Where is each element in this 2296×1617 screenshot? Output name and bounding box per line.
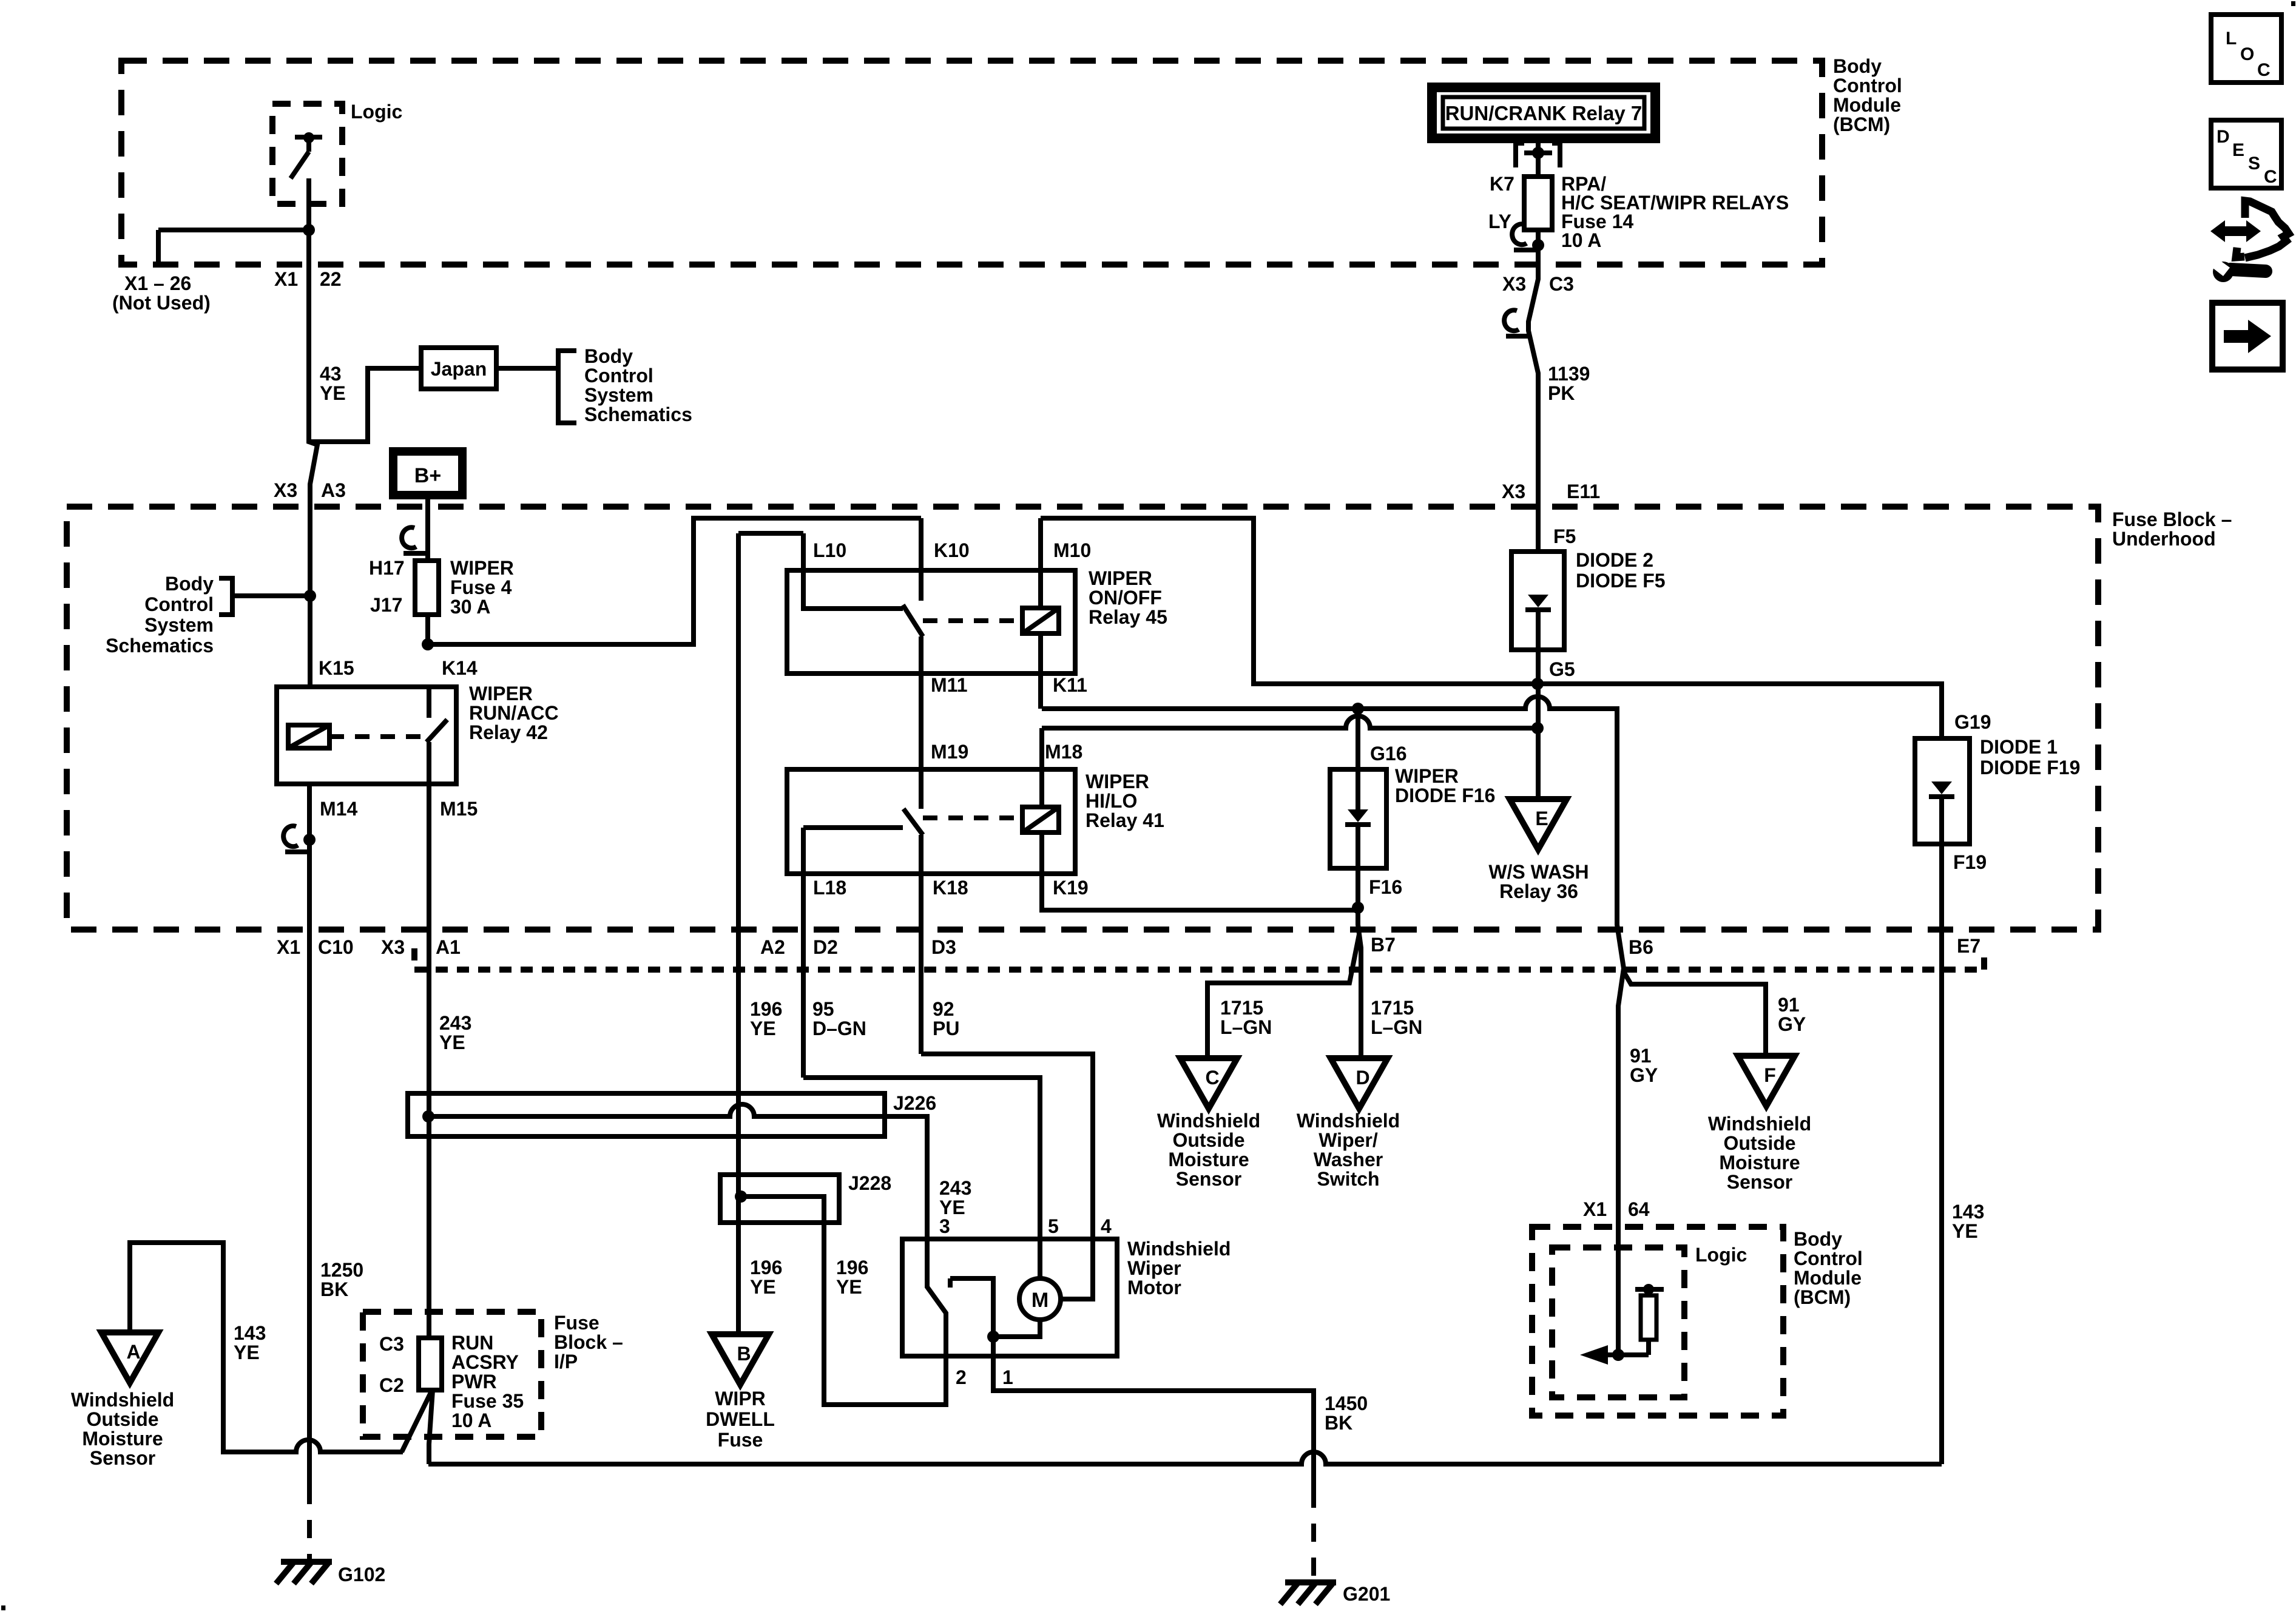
svg-text:Logic: Logic <box>351 101 402 123</box>
relay45 coil dashed link <box>923 618 1022 623</box>
svg-text:F19: F19 <box>1953 851 1987 873</box>
relay41 K19 pin <box>1042 832 1358 910</box>
svg-text:(Not Used): (Not Used) <box>112 292 211 314</box>
svg-text:G201: G201 <box>1343 1583 1390 1605</box>
J228 bar to motor pin2 <box>741 1197 946 1405</box>
svg-text:B7: B7 <box>1371 934 1396 956</box>
svg-text:B: B <box>737 1343 751 1365</box>
relay42 coil-switch dashed link <box>329 734 421 739</box>
node under relay 7 <box>1532 147 1544 159</box>
diode DIODE 1 / DIODE F19 box <box>1915 738 1970 844</box>
fuse RUN ACSRY PWR Fuse 35 10A <box>419 1338 442 1390</box>
relay41 coil <box>1022 807 1059 832</box>
node M14 clip junction <box>303 834 316 846</box>
sensor triangle C <box>1180 1058 1237 1109</box>
relay41 L18 wire <box>803 825 903 830</box>
switch S-logic in BCM <box>295 135 322 140</box>
node logic output <box>1612 1349 1624 1361</box>
relay41 coil dashed link <box>923 815 1022 820</box>
svg-text:64: 64 <box>1628 1198 1650 1220</box>
wire diode F16 to B7 node <box>1356 826 1360 908</box>
motor Windshield Wiper Motor box <box>902 1239 1117 1356</box>
svg-text:E7: E7 <box>1957 935 1980 957</box>
svg-text:M19: M19 <box>931 741 968 763</box>
corner mark top right <box>2291 1 2295 6</box>
wire 43 YE down to fuse block <box>309 265 317 687</box>
node junction at logic output <box>303 224 315 236</box>
svg-text:X1: X1 <box>274 268 298 290</box>
wire branch to C triangle <box>1207 934 1359 1058</box>
svg-text:E: E <box>2232 140 2244 160</box>
wire fuse35 top <box>427 1312 431 1338</box>
module box: Fuse Block - Underhood <box>67 507 2098 930</box>
icon LOC box <box>2211 15 2281 83</box>
svg-text:B6: B6 <box>1629 936 1653 958</box>
resistor in logic box <box>1635 1287 1664 1292</box>
wire fuse35 out to bottom line <box>429 1390 433 1464</box>
node at K15 wire <box>304 590 316 602</box>
svg-text:A1: A1 <box>436 936 461 958</box>
relay45 K11 pin <box>1038 633 1043 709</box>
relay42 switch arm <box>427 687 431 718</box>
svg-text:K14: K14 <box>442 657 478 679</box>
svg-text:X1: X1 <box>277 936 300 958</box>
wire fuse 14 output <box>1536 230 1541 245</box>
wire stub X1-26 not used <box>156 230 161 265</box>
relay45 switch arm <box>919 518 923 601</box>
icon arrow box <box>2212 303 2283 370</box>
svg-text:C: C <box>2257 60 2271 80</box>
relay45 L10 wire <box>738 531 803 536</box>
svg-text:B+: B+ <box>414 464 441 487</box>
wire fuse35 out diagonal to 143 YE loop <box>402 1390 432 1452</box>
svg-text:E11: E11 <box>1567 481 1600 502</box>
wire 143 YE loop <box>130 1243 403 1452</box>
svg-text:X1 – 26: X1 – 26 <box>124 272 191 294</box>
svg-text:1: 1 <box>1002 1366 1013 1388</box>
relay45 M11 wire <box>919 636 923 809</box>
node J17 output junction <box>422 638 434 650</box>
svg-text:A2: A2 <box>760 936 785 958</box>
power feed B+ box <box>393 451 462 495</box>
wire M10 box to G5 and diode1 <box>1041 518 1942 738</box>
wire pin5 to M <box>1038 1239 1042 1278</box>
svg-text:G102: G102 <box>338 1564 385 1585</box>
svg-text:C3: C3 <box>1549 273 1574 295</box>
wire M14 to ground G102 (1250 BK) <box>307 784 312 1486</box>
svg-text:22: 22 <box>320 268 342 290</box>
svg-text:J228: J228 <box>848 1172 891 1194</box>
diode F19 symbol <box>1931 781 1952 794</box>
svg-text:D: D <box>1356 1067 1369 1089</box>
svg-text:D: D <box>2217 127 2230 147</box>
clip at M14 <box>283 826 298 846</box>
corner mark bottom left <box>1 1605 5 1610</box>
svg-text:Logic: Logic <box>1695 1244 1747 1266</box>
svg-text:D3: D3 <box>931 936 956 958</box>
wire M15 to fuse 35 (243 YE) <box>427 784 431 1338</box>
svg-text:H17: H17 <box>369 557 405 579</box>
logic box (BCM internal switch) <box>272 104 342 204</box>
wire 1139 PK to E11 <box>1528 245 1538 552</box>
connector bracket under relay 7 <box>1536 138 1541 153</box>
diode DIODE 2 / DIODE F5 box <box>1511 552 1564 650</box>
node motor common <box>987 1331 999 1343</box>
svg-text:Relay 36: Relay 36 <box>1499 880 1578 902</box>
svg-text:S: S <box>2248 154 2260 174</box>
wire pin4 to M <box>1061 1239 1093 1299</box>
relay42 coil <box>288 725 329 748</box>
wire M18 to G5 (line B) <box>1042 716 1538 728</box>
node J228 splice <box>735 1190 747 1203</box>
svg-text:LY: LY <box>1488 211 1511 232</box>
svg-text:C: C <box>1205 1067 1219 1089</box>
svg-text:Fuse Block –Underhood: Fuse Block –Underhood <box>2112 508 2232 550</box>
svg-text:Japan: Japan <box>431 358 487 380</box>
svg-text:G16: G16 <box>1370 743 1406 765</box>
svg-text:K10: K10 <box>934 539 970 561</box>
J226 bus bar <box>428 1104 927 1287</box>
svg-text:J17: J17 <box>370 594 402 616</box>
bracket to Body Control System Schematics (left) <box>219 578 232 615</box>
node G16 branch <box>1352 703 1364 715</box>
bracket to Body Control System Schematics (top) <box>496 366 558 371</box>
svg-text:F16: F16 <box>1369 876 1402 898</box>
relay41 M18 pin <box>1039 728 1044 807</box>
svg-text:E: E <box>1535 808 1548 829</box>
svg-text:X3: X3 <box>381 936 405 958</box>
relay45 coil <box>1022 608 1059 633</box>
module box: Fuse Block - I/P <box>363 1312 541 1437</box>
splice pack J226 box <box>408 1093 885 1136</box>
sensor triangle A <box>101 1332 158 1383</box>
svg-text:4: 4 <box>1101 1215 1112 1237</box>
motor M circle <box>1019 1278 1061 1320</box>
wire 1250 BK dashed to G102 <box>307 1486 312 1562</box>
wire motor common to pin1 <box>993 1337 1314 1490</box>
clip below fuse 14 <box>1512 224 1527 245</box>
node fuse 14 output <box>1532 239 1544 251</box>
svg-text:DIODE 2DIODE F5: DIODE 2DIODE F5 <box>1576 549 1666 592</box>
svg-text:C2: C2 <box>379 1374 404 1396</box>
wire G5 vertical <box>1536 612 1541 799</box>
svg-text:G5: G5 <box>1549 658 1575 680</box>
fuse triangle B (WIPR DWELL) <box>712 1334 769 1385</box>
svg-text:D2: D2 <box>813 936 838 958</box>
relay WIPER RUN/ACC Relay 42 box <box>277 687 456 784</box>
svg-text:M: M <box>1032 1289 1048 1312</box>
svg-text:A: A <box>126 1341 140 1363</box>
icon DESC box <box>2211 120 2281 188</box>
svg-text:C3: C3 <box>379 1333 404 1355</box>
svg-text:W/S WASH: W/S WASH <box>1488 861 1589 883</box>
logic box (BCM bottom) <box>1552 1247 1684 1397</box>
connector Japan box <box>421 348 496 389</box>
svg-text:L: L <box>2226 29 2237 49</box>
wire 1450 BK dashed to G201 <box>1311 1490 1316 1582</box>
relay41 switch arm <box>903 809 923 835</box>
wire F19 to E7 down to bottom line (143 YE) <box>1939 798 1944 1464</box>
svg-text:X3: X3 <box>1502 273 1526 295</box>
svg-text:J226: J226 <box>893 1092 936 1114</box>
wash relay triangle E <box>1510 799 1567 849</box>
arrow into logic <box>1608 1352 1649 1357</box>
svg-text:F5: F5 <box>1553 525 1576 547</box>
svg-text:C10: C10 <box>318 936 354 958</box>
svg-text:A3: A3 <box>321 479 346 501</box>
ground G102 <box>281 1559 332 1565</box>
relay WIPER HI/LO Relay 41 box <box>787 769 1075 874</box>
motor park switch <box>927 1239 946 1405</box>
splice pack J228 box <box>720 1175 839 1223</box>
clip at X3-C3 <box>1504 310 1519 331</box>
svg-text:C: C <box>2264 167 2277 187</box>
svg-text:K19: K19 <box>1053 877 1089 899</box>
svg-text:M14: M14 <box>320 798 357 820</box>
svg-text:L18: L18 <box>813 877 846 899</box>
svg-text:L10: L10 <box>813 539 846 561</box>
relay45 M10 pin <box>1038 518 1043 608</box>
module box: Body Control Module (BCM), bottom <box>1532 1227 1783 1416</box>
svg-text:2: 2 <box>956 1366 967 1388</box>
fuse WIPER Fuse 4 30 A <box>415 561 439 615</box>
wire 143 YE bottom run <box>428 1452 1942 1464</box>
svg-text:K15: K15 <box>319 657 354 679</box>
svg-text:M11: M11 <box>931 674 967 696</box>
relay WIPER ON/OFF Relay 45 box <box>787 570 1075 673</box>
svg-text:M18: M18 <box>1045 741 1082 763</box>
relay RUN/CRANK Relay 7 box <box>1432 87 1655 138</box>
ground G201 <box>1285 1579 1336 1585</box>
diode F16 symbol <box>1348 809 1368 822</box>
wire relay7 to fuse 14 <box>1536 153 1541 177</box>
wire M to common <box>993 1320 1040 1337</box>
diode WIPER DIODE F16 box <box>1330 769 1386 868</box>
svg-text:3: 3 <box>939 1215 950 1237</box>
node G5 on K11-east line <box>1531 678 1544 690</box>
svg-text:O: O <box>2240 44 2254 64</box>
svg-text:K7: K7 <box>1490 173 1514 195</box>
fuse RPA/H-C SEAT/WIPR RELAYS Fuse 14 10A <box>1524 177 1552 230</box>
wire D2 95 to motor pin5 <box>803 1078 1040 1278</box>
switch triangle D <box>1331 1058 1388 1109</box>
svg-text:X1: X1 <box>1583 1198 1607 1220</box>
wire fuse J17 output <box>425 615 430 644</box>
wire B+ to Wiper Fuse 4 <box>425 499 430 561</box>
svg-text:X3: X3 <box>1502 481 1525 502</box>
diode F5 symbol <box>1528 595 1548 607</box>
wire K11 to G16/B6 (line A) <box>1042 697 1624 1355</box>
node F16/B7/K19 <box>1352 902 1364 914</box>
svg-text:RUN/CRANK Relay 7: RUN/CRANK Relay 7 <box>1445 102 1643 124</box>
svg-text:M15: M15 <box>440 798 478 820</box>
icon wrench/jump <box>2210 220 2261 242</box>
wire B7 to D triangle <box>1358 908 1361 1058</box>
wire 196 YE from L10 to B fuse triangle <box>736 533 741 1334</box>
clip at H17 <box>402 527 416 548</box>
wire Japan branch <box>309 368 421 442</box>
sensor triangle F <box>1738 1056 1795 1106</box>
svg-text:5: 5 <box>1048 1215 1059 1237</box>
wire branch to F triangle <box>1623 971 1766 1056</box>
svg-text:F: F <box>1764 1064 1776 1086</box>
svg-text:X3: X3 <box>274 479 297 501</box>
node G5 on M18 line <box>1531 722 1544 734</box>
svg-text:K18: K18 <box>933 877 968 899</box>
wire from logic switch to X1-22 <box>306 178 311 265</box>
svg-text:G19: G19 <box>1954 711 1991 733</box>
module box: Body Control Module (BCM), top <box>121 61 1822 265</box>
wire D3 92 to motor pin4 <box>921 1054 1093 1239</box>
connector line X1/X3 (fine dashed) <box>411 948 417 970</box>
wire G16 to diode F16 <box>1356 709 1360 809</box>
wire J17 to relay45 K10 <box>428 518 921 644</box>
svg-text:M10: M10 <box>1053 539 1091 561</box>
node J226 splice <box>422 1110 434 1122</box>
svg-text:K11: K11 <box>1053 674 1087 696</box>
